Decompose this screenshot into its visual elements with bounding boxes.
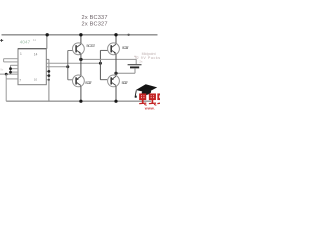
wire Vdd drop pin14: [46, 35, 48, 49]
node junction Q drive: [99, 62, 102, 65]
wire Q1 collector up: [80, 35, 82, 44]
transistor Q4 emitter arrow: [111, 78, 113, 80]
wire input left edge: [0, 73, 18, 75]
svg-text:7: 7: [19, 79, 21, 83]
transistor Q3 upper slant: [76, 76, 81, 79]
wire Q3 base: [68, 79, 73, 81]
transistor Q1 collector slant: [76, 44, 81, 47]
svg-text:4047: 4047: [20, 40, 31, 45]
transistor Q1 emitter arrow: [79, 51, 81, 53]
node junction Q4 rail: [114, 100, 117, 103]
wire top supply rail: [2, 34, 158, 36]
node solder blob on rail: [127, 34, 129, 36]
transistor Q4 upper slant: [111, 76, 116, 79]
wire right base tie vertical: [99, 50, 101, 79]
watermark glyph chong 1: [139, 94, 146, 106]
svg-text:2s: 2s: [139, 59, 143, 63]
node plus terminal mark: [0, 39, 3, 42]
wire Q3 collector down: [80, 86, 82, 101]
wire pin stub right q6: [46, 79, 49, 81]
transistor Q2 emitter arrow: [114, 51, 116, 53]
wire Q2 collector up: [115, 35, 117, 44]
svg-text:14: 14: [34, 52, 38, 56]
transistor Q2 bar: [110, 45, 112, 52]
wire Q4 base: [100, 79, 107, 81]
battery B1 long plate: [128, 64, 142, 66]
battery B1 short plate: [130, 66, 139, 68]
node junction D: [9, 67, 12, 70]
svg-text:BC337: BC337: [122, 46, 128, 50]
watermark cap base: [141, 89, 152, 96]
svg-text:11: 11: [33, 38, 36, 42]
node junction E: [9, 71, 12, 74]
wire pin stub right q4: [46, 70, 49, 72]
transistor Q2 collector slant: [111, 44, 116, 47]
wire pin stub left A: [4, 58, 18, 60]
transistor Q3 emitter arrow: [76, 78, 78, 80]
wire emitter bus to battery: [81, 59, 136, 64]
transistor Q4 BC327 circle: [108, 75, 120, 87]
wire right output column: [115, 54, 117, 75]
transistor Q2 BC337 circle: [108, 43, 120, 55]
svg-text:10: 10: [34, 77, 38, 81]
transistor Q2 emitter slant: [111, 50, 116, 53]
wire pin stub left C: [11, 64, 19, 66]
transistor Q3 bar: [75, 77, 77, 84]
wire left output column: [80, 54, 82, 75]
resistor R1 loop vertical: [10, 65, 12, 74]
transistor Q1 emitter slant: [76, 50, 81, 53]
capacitor C1 loop vertical: [3, 59, 5, 62]
op-amp U1 IC 4047 body: [18, 49, 46, 85]
watermark glyph chong 3 clipped: [157, 94, 163, 104]
wire Q2 base: [100, 49, 108, 51]
svg-text:2x BC327: 2x BC327: [82, 21, 108, 27]
wire Q1 base: [68, 50, 73, 52]
wire battery to right output: [116, 72, 135, 74]
svg-text:BC327: BC327: [85, 81, 91, 85]
wire left base tie vertical: [67, 51, 69, 80]
node junction left output: [79, 58, 82, 61]
transistor Q4 bar: [110, 77, 112, 84]
wire ground drop left: [5, 74, 7, 101]
wire pin stub left E: [11, 71, 19, 73]
transistor Q1 bar: [75, 45, 77, 52]
transistor Q3 lower slant: [76, 82, 81, 85]
wire pin stub left B: [4, 61, 18, 63]
node junction Qbar drive: [66, 65, 69, 68]
node junction Q3 rail: [79, 100, 82, 103]
wire bottom ground rail: [6, 100, 151, 102]
node junction input: [5, 73, 8, 76]
svg-text:WWW.: WWW.: [145, 107, 155, 110]
node junction right output: [114, 72, 117, 75]
wire Q4 collector down: [115, 86, 117, 101]
wire pin stub left D: [11, 68, 19, 70]
node junction q5: [48, 74, 51, 77]
node junction Q1 rail: [79, 33, 82, 36]
node junction Vdd rail: [46, 33, 49, 36]
wire pin stub right q1: [46, 58, 49, 60]
svg-text:1: 1: [20, 52, 22, 56]
transistor Q1 BC337 circle: [73, 43, 85, 55]
watermark cap board: [136, 84, 157, 92]
wire Vss bus vertical right of IC: [48, 59, 50, 101]
wire output Qbar to left pair: [46, 66, 68, 68]
node junction q6: [48, 79, 50, 81]
svg-text:2x BC337: 2x BC337: [82, 15, 108, 21]
svg-text:BC327: BC327: [122, 81, 128, 85]
transistor Q4 lower slant: [111, 82, 116, 85]
wire pin stub left F: [6, 78, 18, 80]
transistor Q3 BC327 circle: [73, 75, 85, 87]
wire output Q to right pair: [46, 62, 100, 64]
node junction q4: [48, 70, 51, 73]
svg-text:BC337: BC337: [87, 44, 96, 48]
node junction Q2 rail: [114, 33, 117, 36]
watermark glyph chong 2: [149, 94, 156, 106]
wire battery minus down: [134, 68, 136, 73]
watermark tassel: [135, 90, 136, 96]
wire pin stub right q5: [46, 75, 49, 77]
